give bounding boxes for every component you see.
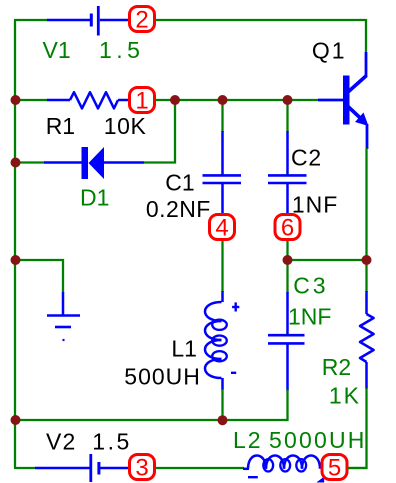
junction dot mid row x287 <box>283 255 293 265</box>
junction dot diode row <box>11 158 21 168</box>
L1 minus mark <box>231 372 236 374</box>
svg-text:0.2NF: 0.2NF <box>146 196 211 222</box>
wire L1 to bottom rail <box>221 389 223 420</box>
wire emitter down to mid junction <box>365 148 367 261</box>
wire mid junction to C3 <box>286 260 288 293</box>
junction dot base row x287 <box>283 95 293 105</box>
wire diode row green right + up to R1 row <box>144 100 175 163</box>
wire node3 to L2 <box>156 467 244 469</box>
node 3 box <box>130 455 155 482</box>
resistor R1 <box>47 92 128 108</box>
wire left rail vertical <box>14 20 16 468</box>
svg-text:R1: R1 <box>46 113 75 139</box>
wire C1 column green top <box>221 100 223 132</box>
node 6 box <box>275 215 300 242</box>
node 4 box <box>210 215 235 242</box>
wire top rail left segment <box>14 19 48 21</box>
L1 plus mark <box>234 302 236 311</box>
svg-text:R2: R2 <box>322 354 351 380</box>
svg-text:2: 2 <box>135 7 148 34</box>
resistor R2 <box>360 291 374 389</box>
junction dot left mid row <box>11 255 21 265</box>
wire ground stub <box>15 260 63 293</box>
node 1 box <box>130 88 155 115</box>
battery V1 <box>47 6 128 36</box>
node 5 box <box>322 455 347 482</box>
battery V2 <box>35 454 128 482</box>
svg-text:5: 5 <box>328 455 341 482</box>
L2 end stub under node 5 <box>316 477 324 483</box>
junction dot left R1 row <box>11 95 21 105</box>
junction dot left bottom row <box>11 415 21 425</box>
transistor Q1 <box>318 52 369 149</box>
svg-text:D1: D1 <box>80 185 109 211</box>
wire R2 column green above <box>365 260 367 292</box>
svg-text:3: 3 <box>135 455 148 482</box>
node 2 box <box>130 7 155 34</box>
wire node4 to L1 <box>221 241 223 292</box>
inductor L1 <box>205 291 239 390</box>
svg-text:1NF: 1NF <box>288 304 331 330</box>
svg-text:L2: L2 <box>233 427 263 453</box>
L2 minus mark <box>248 476 258 478</box>
wire right top vertical to collector <box>365 19 367 53</box>
junction dot base row x222 <box>218 95 228 105</box>
svg-text:V2: V2 <box>46 429 77 455</box>
wire node6 to mid junction <box>286 241 288 261</box>
svg-text:1: 1 <box>135 88 148 115</box>
capacitor C1 <box>203 131 242 214</box>
ground <box>47 292 80 340</box>
svg-text:5000UH: 5000UH <box>269 427 367 453</box>
svg-text:Q1: Q1 <box>312 38 347 64</box>
wire top rail right segment <box>156 19 367 21</box>
wire R1 row green from rail <box>15 99 48 101</box>
diode D1 <box>44 147 144 179</box>
junction dot mid row x366 <box>362 255 372 265</box>
svg-text:C1: C1 <box>165 170 194 196</box>
wire C3 to bottom rail corner <box>15 390 288 421</box>
wire node5 to corner <box>348 467 366 469</box>
svg-text:4: 4 <box>215 215 228 242</box>
wire C2 column green top <box>286 100 288 132</box>
wire diode row green left <box>15 161 45 163</box>
svg-text:10K: 10K <box>104 113 147 139</box>
wire mid row right segment <box>288 259 367 261</box>
wire V2 row green left <box>14 467 36 469</box>
capacitor C3 <box>268 292 305 391</box>
svg-text:V1: V1 <box>43 37 71 63</box>
svg-text:1NF: 1NF <box>292 191 338 217</box>
junction dot bottom row x222 <box>218 415 228 425</box>
svg-text:1.5: 1.5 <box>99 37 144 63</box>
wire R2 down to bottom right corner <box>348 388 367 468</box>
svg-text:C2: C2 <box>291 145 322 171</box>
svg-text:6: 6 <box>281 215 294 242</box>
svg-text:500UH: 500UH <box>124 364 201 390</box>
svg-text:C3: C3 <box>293 273 328 299</box>
wire base row green <box>156 99 319 101</box>
junction dot base row x175 <box>170 95 180 105</box>
svg-text:1K: 1K <box>329 383 361 409</box>
svg-text:1.5: 1.5 <box>92 429 131 455</box>
capacitor C2 <box>268 131 307 214</box>
inductor L2 <box>243 455 324 482</box>
svg-text:L1: L1 <box>171 336 197 362</box>
